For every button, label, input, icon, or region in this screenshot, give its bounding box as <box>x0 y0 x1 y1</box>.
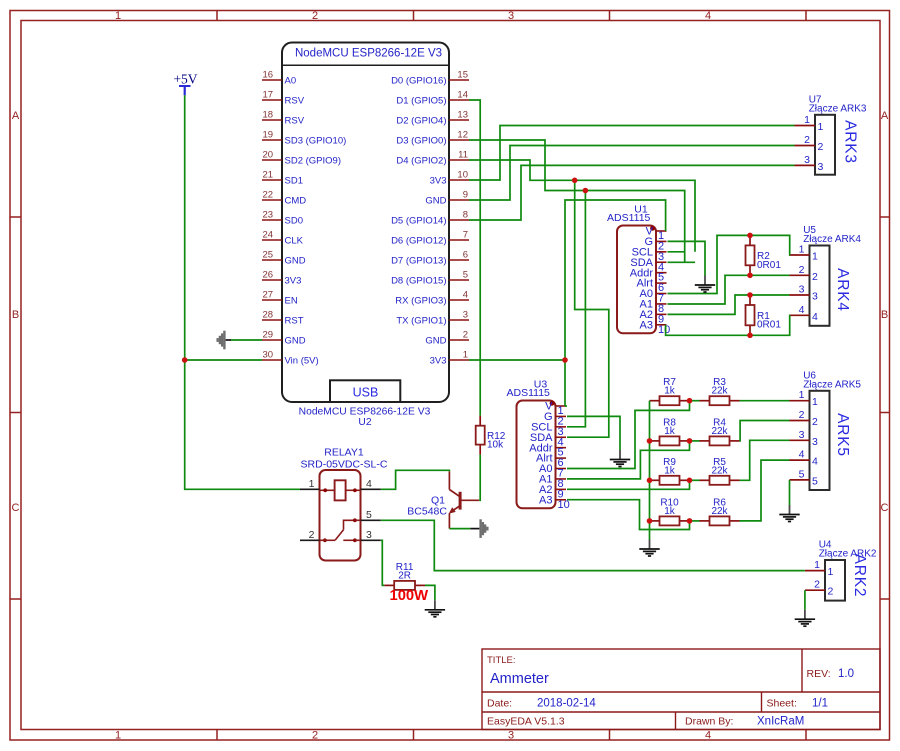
wire +5V rail to RELAY1 pin 1 <box>185 95 300 489</box>
svg-text:D7 (GPIO13): D7 (GPIO13) <box>391 255 446 266</box>
svg-text:Złącze ARK4: Złącze ARK4 <box>803 234 861 245</box>
wire R6 to ARK5 pin 4 <box>740 460 790 521</box>
svg-text:1: 1 <box>115 730 121 742</box>
U2 pin 3 TX (GPIO1) <box>396 310 469 327</box>
ground (chunky) at Q1 emitter <box>470 528 479 530</box>
wire 3V3 net U2 pin1 to U1/U3 <box>469 359 565 361</box>
svg-text:26: 26 <box>263 270 274 281</box>
svg-text:D3 (GPIO0): D3 (GPIO0) <box>396 135 446 146</box>
U2 pin 10 3V3 <box>430 170 469 187</box>
svg-text:RSV: RSV <box>285 95 305 106</box>
wire RELAY1 pin 4 to Q1 collector <box>381 470 450 489</box>
U2 pin 4 RX (GPIO3) <box>395 290 469 307</box>
svg-text:U2: U2 <box>358 417 371 428</box>
svg-text:Ammeter: Ammeter <box>490 671 549 687</box>
svg-text:4: 4 <box>799 449 805 461</box>
svg-text:0R01: 0R01 <box>757 260 781 271</box>
wire U3 pin 1 link <box>565 405 567 407</box>
svg-text:BC548C: BC548C <box>407 506 447 518</box>
svg-text:23: 23 <box>263 210 274 221</box>
U2 pin 30 Vin (5V) <box>262 350 319 367</box>
resistor R10 1k <box>650 520 660 522</box>
ground below R11 <box>425 600 445 617</box>
resistor R3 22k <box>700 400 710 402</box>
ground near U3 <box>610 450 630 467</box>
wire RELAY1 pin 3 to R11 <box>381 540 384 585</box>
wire U2 pin 10 3V3 to ARK3 pin 1 <box>469 126 795 181</box>
svg-text:D2 (GPIO4): D2 (GPIO4) <box>396 115 446 126</box>
U3 pin 9 A2 <box>539 484 566 500</box>
svg-text:B: B <box>12 309 19 321</box>
U6 pin 4 <box>790 449 819 468</box>
wire U3 A0 to R7 <box>567 401 690 469</box>
svg-text:2: 2 <box>312 730 318 742</box>
resistor R7 1k <box>650 400 660 402</box>
op-amp/ADC U3 ADS1115 body <box>507 379 556 509</box>
wire +5V to U2 pin 30 Vin <box>185 359 262 361</box>
svg-text:2: 2 <box>463 330 468 341</box>
svg-text:C: C <box>12 502 20 514</box>
svg-text:27: 27 <box>263 290 274 301</box>
junction <box>687 398 693 404</box>
svg-text:4: 4 <box>799 304 805 316</box>
U1 pin 9 A2 <box>640 309 667 325</box>
wire R9 to R5 <box>690 479 700 481</box>
svg-text:28: 28 <box>263 310 274 321</box>
resistor R12 10k <box>479 416 481 426</box>
junction <box>687 438 693 444</box>
svg-text:5: 5 <box>812 475 818 487</box>
svg-text:20: 20 <box>263 150 274 161</box>
RELAY1 pin 4 <box>361 478 381 490</box>
svg-text:EN: EN <box>285 295 298 306</box>
ground (chunky) at U2 pin 29 <box>226 339 231 341</box>
svg-text:1: 1 <box>812 251 818 263</box>
svg-text:D4 (GPIO2): D4 (GPIO2) <box>396 155 446 166</box>
U3 pin 7 A0 <box>539 463 566 479</box>
connector U6 Złącze ARK5 body <box>803 370 861 490</box>
wire R3 to ARK5 pin 1 <box>740 400 790 402</box>
resistor R1 0R01 <box>749 295 751 305</box>
svg-text:5: 5 <box>366 509 372 521</box>
svg-text:SD1: SD1 <box>285 175 303 186</box>
svg-text:2: 2 <box>818 141 824 153</box>
wire U1 pin 3 SCL stub link <box>668 251 685 253</box>
wire ARK5 pin 5 to ground <box>789 480 791 505</box>
wire U1 A3 to ARK4 pin4 / R1 bottom <box>666 315 790 335</box>
junction <box>647 478 653 484</box>
svg-text:4: 4 <box>705 730 711 742</box>
U2 pin 25 GND <box>262 250 306 267</box>
svg-text:15: 15 <box>457 70 468 81</box>
wire R8 to R4 <box>690 440 700 442</box>
svg-text:1: 1 <box>463 350 468 361</box>
svg-text:3: 3 <box>812 291 818 303</box>
connector U5 Złącze ARK4 body <box>803 225 861 326</box>
junction <box>572 178 578 184</box>
svg-text:4: 4 <box>812 456 818 468</box>
resistor R2 0R01 <box>749 235 751 245</box>
RELAY1 pin 5 <box>361 509 381 521</box>
svg-text:3: 3 <box>366 529 372 541</box>
wire U3 A1 to R8 <box>567 441 690 479</box>
U2 pin 27 EN <box>262 290 298 307</box>
svg-text:1k: 1k <box>664 465 676 476</box>
U3 pin 2 G <box>544 411 566 427</box>
U2 pin 6 D7 (GPIO13) <box>391 250 469 267</box>
svg-text:2: 2 <box>309 529 315 541</box>
svg-text:3: 3 <box>508 10 514 22</box>
svg-text:B: B <box>881 309 888 321</box>
RELAY1 pin 1 <box>300 478 320 490</box>
junction <box>747 292 753 298</box>
ground below ARK2 pin 2 <box>795 610 815 627</box>
svg-text:5: 5 <box>463 270 468 281</box>
U1 pin 3 SCL <box>632 246 667 262</box>
svg-text:0R01: 0R01 <box>757 320 781 331</box>
svg-text:TX (GPIO1): TX (GPIO1) <box>396 315 446 326</box>
svg-text:A0: A0 <box>285 75 297 86</box>
U2 pin 24 CLK <box>262 230 304 247</box>
svg-text:A: A <box>12 110 20 122</box>
U3 pin 8 A1 <box>539 474 566 490</box>
title block text <box>487 655 854 728</box>
U2 pin 8 D5 (GPIO14) <box>391 210 469 227</box>
svg-text:3: 3 <box>508 730 514 742</box>
resistor R8 1k <box>650 440 660 442</box>
svg-text:6: 6 <box>463 250 468 261</box>
U6 pin 3 <box>790 429 819 448</box>
ground near U1 <box>695 276 715 293</box>
svg-text:10: 10 <box>558 499 570 511</box>
U1 pin 6 Alrt <box>637 278 667 294</box>
U2 pin 15 D0 (GPIO16) <box>391 70 469 87</box>
power flag +5V <box>173 72 197 96</box>
wire U3 pin 2 G to ground <box>567 416 620 450</box>
svg-text:XnIcRaM: XnIcRaM <box>757 716 804 728</box>
svg-text:TITLE:: TITLE: <box>487 655 516 666</box>
svg-text:GND: GND <box>425 195 446 206</box>
U1 pin 2 G <box>644 236 666 252</box>
resistor R11 2R 100W <box>384 584 394 586</box>
svg-text:ARK5: ARK5 <box>834 413 851 457</box>
svg-text:4: 4 <box>812 311 818 323</box>
svg-text:1.0: 1.0 <box>838 668 854 680</box>
U7 pin 1 <box>795 114 824 133</box>
svg-text:10: 10 <box>658 324 670 336</box>
svg-text:22k: 22k <box>711 506 728 517</box>
U2 pin 2 GND <box>425 330 469 347</box>
title block <box>482 649 880 730</box>
svg-text:D5 (GPIO14): D5 (GPIO14) <box>391 215 446 226</box>
svg-text:3: 3 <box>799 284 805 296</box>
svg-text:12: 12 <box>457 130 468 141</box>
svg-text:4: 4 <box>366 478 372 490</box>
svg-text:100W: 100W <box>389 588 428 604</box>
svg-text:Drawn By:: Drawn By: <box>685 716 733 728</box>
svg-text:NodeMCU ESP8266-12E V3: NodeMCU ESP8266-12E V3 <box>295 48 442 60</box>
svg-text:2: 2 <box>812 416 818 428</box>
junction <box>647 518 653 524</box>
U2 pin 23 SD0 <box>262 210 303 227</box>
wire U3 A2 to R9 <box>567 480 690 489</box>
svg-text:2: 2 <box>814 579 820 591</box>
svg-text:1: 1 <box>818 121 824 133</box>
wire R10 to R6 <box>690 520 700 522</box>
U1 pin 1 V <box>646 226 667 242</box>
RELAY1 switch <box>320 518 361 542</box>
U2 pin 14 D1 (GPIO5) <box>396 90 469 107</box>
svg-text:SD3 (GPIO10): SD3 (GPIO10) <box>285 135 347 146</box>
svg-text:11: 11 <box>458 150 468 161</box>
wire U1 A1 to ARK4 pin2 / R2 bottom <box>668 275 790 304</box>
svg-text:9: 9 <box>463 190 468 201</box>
svg-text:RELAY1: RELAY1 <box>324 447 364 459</box>
svg-text:5: 5 <box>799 468 805 480</box>
U2 pin 5 D8 (GPIO15) <box>391 270 469 287</box>
U3 pin 10 A3 <box>539 494 570 510</box>
svg-text:Złącze ARK3: Złącze ARK3 <box>809 103 867 114</box>
svg-text:CLK: CLK <box>285 235 304 246</box>
svg-text:30: 30 <box>263 350 274 361</box>
svg-text:14: 14 <box>457 90 468 101</box>
U2 USB port box <box>330 380 400 402</box>
svg-text:EasyEDA V5.1.3: EasyEDA V5.1.3 <box>487 716 565 728</box>
svg-text:22k: 22k <box>711 465 728 476</box>
svg-text:ARK3: ARK3 <box>842 120 859 164</box>
U1 pin 10 A3 <box>640 319 671 335</box>
svg-text:1/1: 1/1 <box>812 698 828 710</box>
wire U2 pin 8 D5 to ARK3 pin 3 <box>469 165 795 220</box>
U6 pin 2 <box>790 409 819 428</box>
svg-text:1: 1 <box>804 114 810 126</box>
resistor R5 22k <box>700 479 710 481</box>
wire D3 branch to U3 SCL <box>567 191 585 427</box>
svg-text:SRD-05VDC-SL-C: SRD-05VDC-SL-C <box>301 459 388 471</box>
svg-text:CMD: CMD <box>285 195 307 206</box>
U4 pin 2 <box>805 579 834 598</box>
svg-text:29: 29 <box>263 330 274 341</box>
wire U1 pin 4 SDA stub link <box>668 261 696 263</box>
svg-text:1k: 1k <box>664 386 676 397</box>
wire R5 to ARK5 pin 3 <box>740 440 790 480</box>
junction <box>747 333 753 339</box>
svg-text:18: 18 <box>263 110 274 121</box>
U1 pin 4 SDA <box>630 257 666 273</box>
svg-text:3V3: 3V3 <box>430 175 447 186</box>
svg-text:2: 2 <box>828 586 834 598</box>
U2 bottom labels <box>299 407 431 429</box>
svg-text:Złącze ARK5: Złącze ARK5 <box>803 379 861 390</box>
svg-text:22: 22 <box>263 190 274 201</box>
op-amp/ADC U1 ADS1115 body <box>607 204 656 334</box>
connector U7 Złącze ARK3 body <box>809 94 867 174</box>
junction <box>182 357 188 363</box>
svg-text:USB: USB <box>353 385 379 399</box>
svg-text:13: 13 <box>457 110 468 121</box>
svg-text:7: 7 <box>463 230 468 241</box>
U7 pin 3 <box>795 154 824 173</box>
connector U4 Złącze ARK2 body <box>819 540 877 601</box>
svg-text:3: 3 <box>804 154 810 166</box>
U2 pin 11 D4 (GPIO2) <box>396 150 469 167</box>
svg-text:Sheet:: Sheet: <box>767 698 797 710</box>
svg-text:1: 1 <box>799 389 805 401</box>
U2 pin 18 RSV <box>262 110 305 127</box>
svg-text:ADS1115: ADS1115 <box>507 387 551 399</box>
svg-text:25: 25 <box>263 250 274 261</box>
ground below R7-R10 rail <box>639 540 659 557</box>
wire RELAY1 pin 5 to ARK2 pin 1 <box>381 520 805 570</box>
svg-text:3: 3 <box>799 429 805 441</box>
svg-text:21: 21 <box>263 170 274 181</box>
svg-text:A: A <box>881 110 889 122</box>
U2 pin 19 SD3 (GPIO10) <box>262 130 346 147</box>
junction <box>647 438 653 444</box>
svg-text:8: 8 <box>463 210 468 221</box>
svg-text:1k: 1k <box>664 506 676 517</box>
wire U2 pin 9 GND to ARK3 pin 2 <box>469 146 795 201</box>
wire U2 pin 29 GND to ground <box>231 339 262 341</box>
transistor Q1 BC548C <box>407 471 479 528</box>
svg-text:A3: A3 <box>539 494 552 506</box>
wire U2 pin 11 D4 net <box>469 160 695 252</box>
svg-text:ADS1115: ADS1115 <box>607 212 651 224</box>
U1 pin 5 Addr <box>630 267 667 283</box>
U1 pin 7 A0 <box>640 288 667 304</box>
svg-text:SD2 (GPIO9): SD2 (GPIO9) <box>285 155 342 166</box>
wire Q1 emitter to ground <box>449 528 470 530</box>
svg-text:3V3: 3V3 <box>430 355 447 366</box>
RELAY1 pin 3 <box>361 529 381 541</box>
ground below ARK5 pin 5 <box>779 505 799 522</box>
svg-text:+5V: +5V <box>173 72 197 87</box>
svg-text:1: 1 <box>812 396 818 408</box>
U7 pin 2 <box>795 134 824 153</box>
svg-text:D8 (GPIO15): D8 (GPIO15) <box>391 275 446 286</box>
svg-text:19: 19 <box>263 130 274 141</box>
wire R4 to ARK5 pin 2 <box>740 421 790 441</box>
svg-text:2: 2 <box>799 409 805 421</box>
wire R12 to Q1 base <box>479 455 480 501</box>
svg-text:RSV: RSV <box>285 115 305 126</box>
svg-text:4: 4 <box>463 290 468 301</box>
wire ARK2 pin 2 to ground <box>804 590 806 610</box>
svg-text:2R: 2R <box>398 570 411 581</box>
U2 pin 22 CMD <box>262 190 306 207</box>
U3 pin 4 SDA <box>530 432 566 448</box>
junction <box>747 233 753 239</box>
wire U1 pin 2 G to ground <box>668 241 706 275</box>
svg-text:SD0: SD0 <box>285 215 303 226</box>
U3 pin 1 V <box>545 401 566 417</box>
svg-text:2: 2 <box>799 264 805 276</box>
svg-text:1: 1 <box>814 559 820 571</box>
wire 3V3 vertical <box>565 200 666 406</box>
svg-text:NodeMCU ESP8266-12E V3: NodeMCU ESP8266-12E V3 <box>299 407 431 418</box>
svg-text:Vin (5V): Vin (5V) <box>285 355 319 366</box>
svg-text:ARK4: ARK4 <box>834 268 851 312</box>
svg-text:10k: 10k <box>487 440 504 451</box>
svg-text:A3: A3 <box>640 319 653 331</box>
U2 pin 16 A0 <box>262 70 296 87</box>
U5 pin 3 <box>790 284 819 303</box>
U3 pin 6 Alrt <box>536 453 566 469</box>
U1 pin 8 A1 <box>640 299 667 315</box>
svg-text:4: 4 <box>705 10 711 22</box>
resistor R9 1k <box>650 479 660 481</box>
junction <box>687 478 693 484</box>
svg-text:2: 2 <box>812 271 818 283</box>
wire R7-R10 ground rail <box>649 401 651 540</box>
svg-text:1k: 1k <box>664 426 676 437</box>
svg-text:24: 24 <box>263 230 274 241</box>
svg-text:3: 3 <box>818 161 824 173</box>
svg-text:D0 (GPIO16): D0 (GPIO16) <box>391 75 446 86</box>
U2 pin 1 3V3 <box>430 350 469 367</box>
U2 pin 13 D2 (GPIO4) <box>396 110 469 127</box>
svg-text:3: 3 <box>812 436 818 448</box>
junction <box>747 273 753 279</box>
wire R7 to R3 <box>690 400 700 402</box>
resistor R4 22k <box>700 440 710 442</box>
svg-text:D1 (GPIO5): D1 (GPIO5) <box>396 95 446 106</box>
wire U1 A2 to ARK4 pin3 / R1 top <box>668 295 790 314</box>
U4 pin 1 <box>805 559 834 578</box>
resistor R6 22k <box>700 520 710 522</box>
RELAY1 coil <box>320 480 361 500</box>
svg-text:1: 1 <box>309 478 315 490</box>
U5 pin 2 <box>790 264 819 283</box>
svg-text:22k: 22k <box>711 386 728 397</box>
svg-text:1: 1 <box>828 566 834 578</box>
svg-text:C: C <box>881 502 889 514</box>
U2 pin 17 RSV <box>262 90 305 107</box>
svg-text:Date:: Date: <box>487 698 512 710</box>
wire R11 to ground <box>425 585 435 600</box>
wire U1 A0 to ARK4 pin1 / R2 top <box>668 235 791 293</box>
svg-text:2: 2 <box>312 10 318 22</box>
junction <box>687 518 693 524</box>
wire U2 pin 14 D1 to R12 <box>469 100 480 416</box>
svg-text:2: 2 <box>804 134 810 146</box>
svg-text:GND: GND <box>425 335 446 346</box>
U2 pin 21 SD1 <box>262 170 303 187</box>
wire D4 branch to U3 SDA <box>567 180 609 437</box>
junction <box>583 188 589 194</box>
U3 pin 3 SCL <box>531 421 566 437</box>
svg-text:3: 3 <box>463 310 468 321</box>
relay RELAY1 SRD-05VDC-SL-C body <box>301 447 388 561</box>
svg-text:2018-02-14: 2018-02-14 <box>537 698 596 710</box>
U2 pin 28 RST <box>262 310 304 327</box>
U6 pin 1 <box>790 389 819 408</box>
svg-text:22k: 22k <box>711 426 728 437</box>
U5 pin 1 <box>790 244 819 263</box>
svg-text:GND: GND <box>285 335 306 346</box>
wire U3 A3 to R10 <box>567 500 690 530</box>
RELAY1 pin 2 <box>300 529 320 541</box>
svg-text:1: 1 <box>799 244 805 256</box>
U2 pin 12 D3 (GPIO0) <box>396 130 469 147</box>
U2 pin 7 D6 (GPIO12) <box>391 230 469 247</box>
U6 pin 5 <box>790 468 819 487</box>
svg-text:10: 10 <box>457 170 468 181</box>
svg-text:3V3: 3V3 <box>285 275 302 286</box>
svg-text:16: 16 <box>263 70 274 81</box>
U5 pin 4 <box>790 304 819 323</box>
svg-text:D6 (GPIO12): D6 (GPIO12) <box>391 235 446 246</box>
